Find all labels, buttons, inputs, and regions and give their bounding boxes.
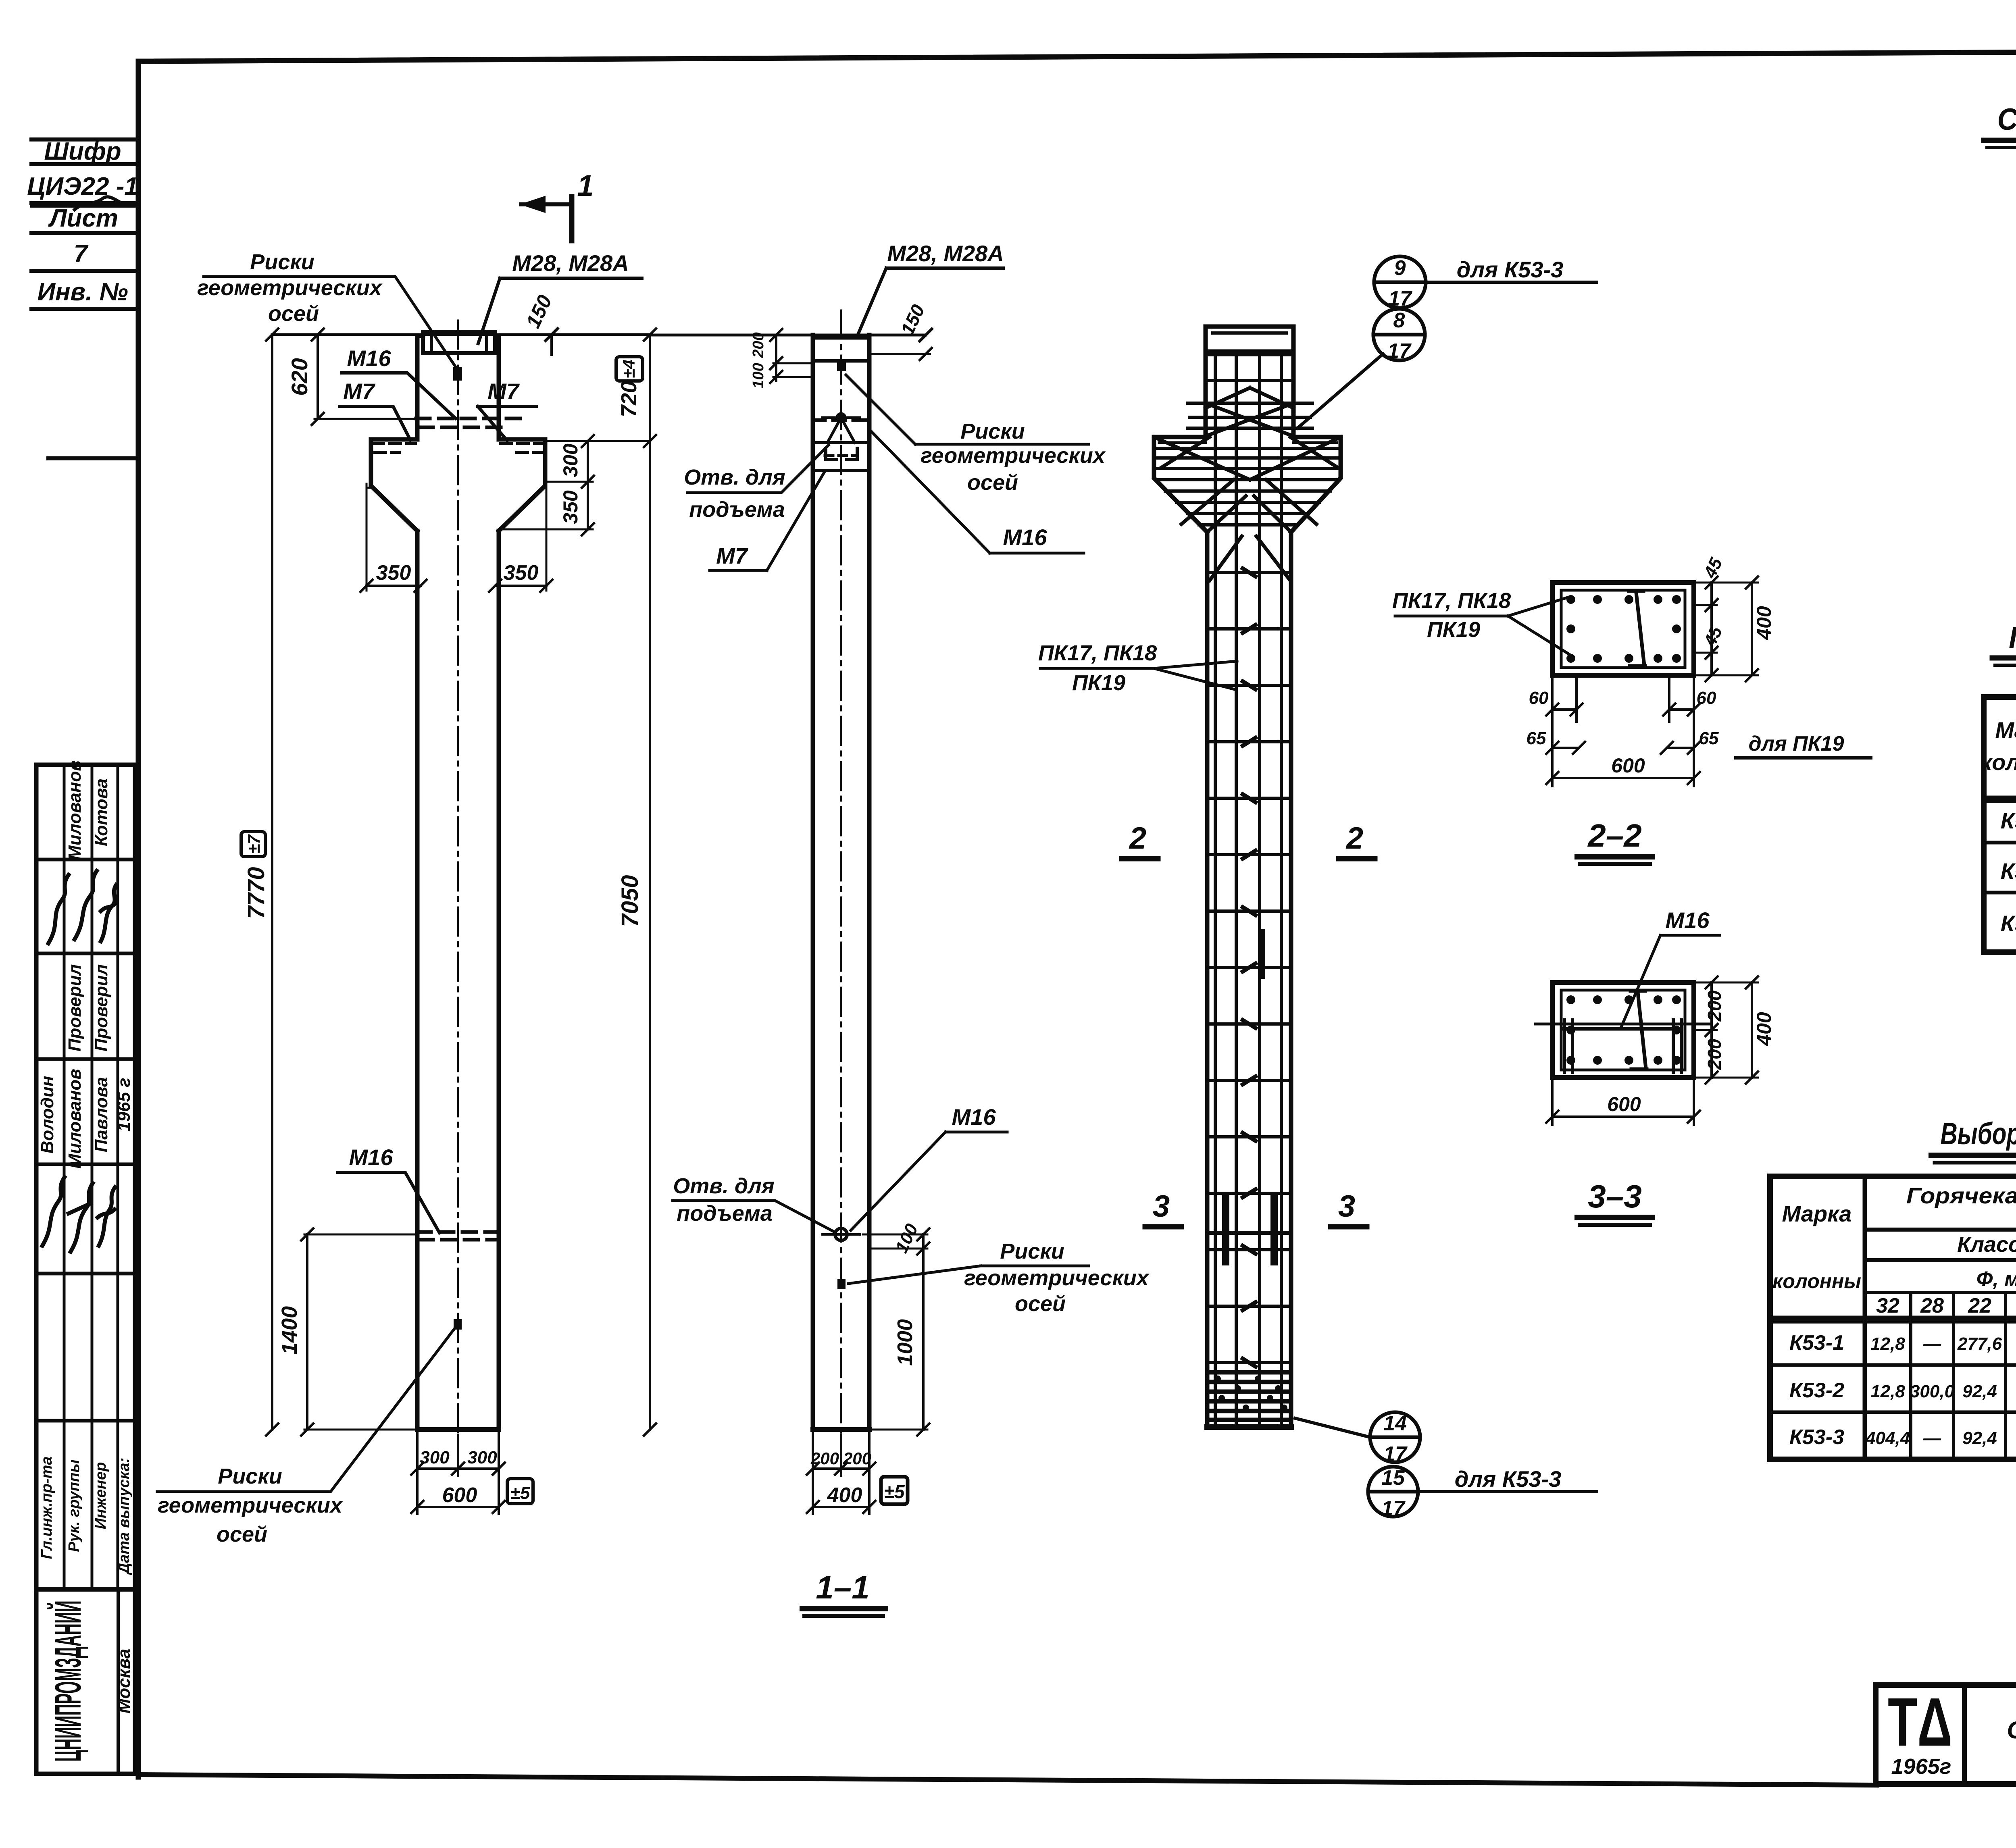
svg-text:К53-2: К53-2 (1789, 1379, 1844, 1402)
table 3: steel breakdown (1770, 1176, 2016, 1459)
dimensions 350 350 (below consoles) (360, 484, 552, 592)
svg-text:Опалубочный и арматурный че: Опалубочный и арматурный чертежи. (2007, 1717, 2016, 1744)
cage arm bars (1156, 448, 1339, 525)
svg-text:17: 17 (1388, 287, 1412, 310)
cage stirrups head (1187, 355, 1312, 428)
svg-text:М16: М16 (1003, 524, 1048, 550)
svg-text:14: 14 (1383, 1412, 1407, 1435)
svg-text:Рук. группы: Рук. группы (66, 1459, 83, 1552)
svg-text:М7: М7 (487, 379, 520, 404)
cage shaft edges (1207, 532, 1291, 1427)
svg-text:Павлова: Павлова (92, 1077, 111, 1153)
svg-text:Володин: Володин (37, 1076, 57, 1154)
view2 lifting hole mark (triangle) (823, 414, 860, 460)
dimension 620 (312, 329, 417, 425)
2-2 bottom dimensions 60 65 600 (1546, 678, 1700, 786)
svg-text:Риски: Риски (218, 1464, 282, 1488)
svg-text:осей: осей (268, 302, 319, 326)
cage longitudinal bars (1215, 352, 1281, 1425)
dimension 720 and 7050 line (548, 329, 656, 1436)
left edge stamp: code table (31, 139, 138, 458)
title block (1876, 1685, 2016, 1784)
svg-text:подъема: подъема (677, 1201, 773, 1226)
view2 centerline (840, 310, 842, 1435)
svg-text:Москва: Москва (114, 1649, 134, 1714)
svg-text:400: 400 (1753, 1012, 1775, 1046)
svg-text:геометрических: геометрических (921, 443, 1106, 468)
svg-text:Отв. для: Отв. для (684, 465, 785, 489)
view1 M16 anchor dashes (head) (416, 418, 520, 427)
view 1: column elevation (wide face) (371, 332, 545, 1430)
svg-text:7050: 7050 (617, 875, 643, 927)
cage shaft stirrups (1207, 572, 1291, 1363)
cage splice zone (dark bars) (1207, 932, 1291, 1262)
svg-text:ЦИЭ22 -1: ЦИЭ22 -1 (27, 173, 138, 200)
svg-text:620: 620 (287, 358, 312, 395)
label Отв. для подъема (top) (684, 465, 785, 522)
svg-text:1–1: 1–1 (816, 1569, 869, 1605)
svg-text:350: 350 (559, 490, 582, 524)
svg-text:Показатели на одну колонну: Показатели на одну колонну (2009, 621, 2016, 655)
svg-text:65: 65 (1527, 728, 1546, 748)
svg-text:Отв. для: Отв. для (673, 1174, 774, 1198)
3-3 bottom dimension 600 (1546, 1080, 1700, 1125)
svg-text:ПК19: ПК19 (1072, 671, 1125, 695)
view2 axis square bottom (837, 1279, 846, 1289)
svg-text:200: 200 (810, 1449, 839, 1468)
svg-text:300: 300 (420, 1448, 450, 1467)
svg-text:600: 600 (442, 1484, 477, 1507)
svg-text:—: — (1923, 1334, 1941, 1354)
svg-text:ПК17, ПК18: ПК17, ПК18 (1038, 641, 1157, 665)
svg-text:350: 350 (376, 561, 411, 585)
svg-text:Риски: Риски (960, 419, 1025, 443)
svg-text:32: 32 (1876, 1294, 1899, 1317)
svg-text:1400: 1400 (277, 1306, 302, 1355)
svg-text:Спецификация марок арматурны: Спецификация марок арматурных (1997, 102, 2016, 137)
svg-text:Риски: Риски (250, 250, 314, 274)
svg-text:1965г: 1965г (1891, 1754, 1951, 1779)
table 2: indicators (1984, 697, 2016, 952)
svg-text:К53-2: К53-2 (2001, 858, 2016, 884)
label ПК17 ПК18 ПК19 (cage) (1038, 641, 1157, 695)
svg-text:колонны: колонны (1981, 749, 2016, 775)
cage bottom dense stirrups (1207, 1372, 1291, 1420)
svg-text:15: 15 (1381, 1466, 1405, 1490)
svg-text:геометрических: геометрических (964, 1266, 1150, 1290)
svg-text:К53-3: К53-3 (1789, 1426, 1844, 1449)
dimension 150 (view2 cap right) (872, 348, 932, 360)
bottom dimensions 200 200 400 view2 (807, 1432, 875, 1514)
svg-text:28: 28 (1920, 1294, 1944, 1317)
view2 M16 dashes top (813, 418, 869, 422)
svg-text:Шифр: Шифр (44, 137, 121, 165)
label ПК17 ПК18 ПК19 (section 2-2) (1392, 589, 1511, 642)
cage arm diagonals (1154, 437, 1341, 581)
2-2 rebar dots (1566, 595, 1681, 663)
dimension 7770 (266, 329, 417, 1436)
view 3: reinforcement cage elevation (1154, 327, 1341, 1427)
view1 axis mark square (bottom) (454, 1319, 462, 1330)
dimensions 300 350 (right of consoles) (502, 435, 594, 535)
svg-text:65: 65 (1699, 728, 1719, 748)
svg-text:1: 1 (577, 169, 594, 202)
svg-text:300: 300 (559, 443, 582, 477)
svg-text:Инв. №: Инв. № (37, 278, 128, 306)
svg-text:100: 100 (750, 363, 767, 388)
svg-text:ПК17, ПК18: ПК17, ПК18 (1392, 589, 1511, 613)
hole lines (813, 443, 869, 470)
leader circles 9/17 8/17 (top) (1297, 256, 1597, 428)
svg-text:К53-3: К53-3 (2001, 911, 2016, 936)
svg-text:М28, М28А: М28, М28А (512, 250, 629, 276)
svg-text:±5: ±5 (884, 1481, 905, 1502)
svg-text:Риски: Риски (1000, 1239, 1064, 1263)
svg-text:Горячекатаная арматурная ст: Горячекатаная арматурная сталь (1906, 1183, 2016, 1208)
view1 M16 dashes (bottom) (417, 1232, 499, 1240)
svg-text:М16: М16 (1666, 907, 1710, 933)
svg-text:для ПК19: для ПК19 (1749, 732, 1844, 755)
left edge stamp: institute block (47, 1600, 89, 1762)
cage arms outline (1154, 437, 1207, 532)
label Риски геометрических осей (view2 top) (921, 419, 1106, 495)
svg-text:подъема: подъема (689, 497, 785, 522)
svg-text:для К53-3: для К53-3 (1457, 257, 1564, 282)
label Отв. для подъема (bottom) (673, 1174, 774, 1226)
svg-text:ПК19: ПК19 (1427, 618, 1480, 642)
view2 lower hole circle (823, 1228, 860, 1240)
svg-text:Выборка стали на одну колон: Выборка стали на одну колонну, кг (1941, 1117, 2016, 1151)
view1 axis mark square (top) (453, 367, 462, 381)
dimensions 200 100 (view2 top left) (770, 329, 813, 383)
svg-text:геометрических: геометрических (158, 1493, 343, 1517)
dimension 1400 (bottom left) (301, 1228, 417, 1436)
console steps (371, 439, 417, 531)
view1 M7 dashes at consoles (373, 443, 543, 452)
view2 top dimension line (650, 329, 932, 341)
shaft edges (813, 335, 869, 1430)
3-3 M16 tube through middle (1535, 991, 1710, 1072)
svg-text:колонны: колонны (1772, 1270, 1861, 1292)
svg-text:2: 2 (1129, 821, 1146, 855)
svg-text:60: 60 (1697, 688, 1716, 708)
svg-text:400: 400 (1753, 606, 1775, 640)
svg-text:12,8: 12,8 (1870, 1382, 1905, 1401)
svg-text:60: 60 (1529, 688, 1549, 708)
svg-text:осей: осей (217, 1522, 267, 1546)
cap (813, 335, 869, 340)
cage head cross bracing (1206, 388, 1293, 436)
svg-text:Гл.инж.пр-та: Гл.инж.пр-та (38, 1457, 55, 1559)
svg-text:К53-1: К53-1 (2001, 808, 2016, 833)
2-2 bent tie (1629, 591, 1645, 666)
svg-text:17: 17 (1383, 1442, 1408, 1466)
cross-section 3-3 (1552, 982, 1694, 1078)
svg-text:3–3: 3–3 (1588, 1178, 1641, 1214)
svg-text:Класс А-Ш: Класс А-Ш (1957, 1232, 2016, 1257)
svg-text:Инженер: Инженер (92, 1462, 109, 1530)
svg-text:600: 600 (1611, 754, 1645, 777)
svg-text:осей: осей (967, 470, 1018, 495)
signature squiggles (42, 871, 116, 1252)
svg-text:Милованов: Милованов (65, 760, 85, 860)
svg-text:12,8: 12,8 (1870, 1334, 1905, 1354)
svg-text:К53-1: К53-1 (1789, 1331, 1844, 1355)
svg-text:Проверил: Проверил (92, 964, 111, 1051)
svg-text:200: 200 (843, 1449, 871, 1468)
svg-text:Марка: Марка (1782, 1201, 1852, 1226)
head outline (417, 334, 499, 338)
label Риски геометрических осей (view2 bottom) (964, 1239, 1150, 1316)
TD logo (1888, 1684, 1952, 1779)
svg-text:ЦНИИПРОМЗДАНИЙ: ЦНИИПРОМЗДАНИЙ (47, 1600, 89, 1762)
svg-text:Марка: Марка (1995, 717, 2016, 743)
svg-text:7770: 7770 (243, 867, 269, 919)
svg-text:Котова: Котова (92, 778, 111, 846)
cage stirrup hooks (1243, 568, 1256, 1367)
svg-text:200: 200 (1704, 1038, 1725, 1070)
svg-text:200: 200 (750, 332, 767, 358)
cross-section 2-2 (1552, 583, 1694, 675)
cage outline top cap (1206, 327, 1293, 352)
svg-text:9: 9 (1394, 256, 1406, 280)
svg-text:±7: ±7 (244, 834, 263, 853)
svg-text:200: 200 (1704, 990, 1725, 1022)
3-3 right dimensions 200 200 400 (1697, 976, 1758, 1084)
svg-text:Милованов: Милованов (65, 1069, 85, 1169)
svg-text:Лист: Лист (48, 204, 118, 232)
svg-text:М7: М7 (716, 543, 749, 568)
title block text (2007, 1692, 2016, 1775)
svg-text:Дата выпуска:: Дата выпуска: (116, 1458, 133, 1575)
svg-text:3: 3 (1338, 1189, 1355, 1224)
left edge stamp: signature table (36, 765, 135, 1774)
svg-text:2–2: 2–2 (1587, 818, 1641, 853)
leader circles 14/17 15/17 (bottom) (1295, 1412, 1597, 1517)
view 2: column elevation (narrow face) (813, 335, 869, 1430)
svg-text:92,4: 92,4 (1962, 1428, 1997, 1448)
svg-text:404,4: 404,4 (1865, 1428, 1910, 1448)
svg-text:2: 2 (1345, 821, 1363, 855)
svg-text:для К53-3: для К53-3 (1455, 1466, 1562, 1492)
svg-text:±5: ±5 (510, 1483, 530, 1503)
svg-text:М28, М28А: М28, М28А (887, 241, 1004, 266)
svg-text:геометрических: геометрических (197, 276, 383, 300)
svg-text:ТΔ: ТΔ (1888, 1684, 1952, 1761)
svg-text:Ф, мм: Ф, мм (1976, 1267, 2016, 1291)
label Риски (bottom view1) (158, 1464, 343, 1546)
view2 axis square below cap (837, 362, 846, 371)
label Риски геометрических осей (top) (197, 250, 383, 326)
2-2 right dimensions 45 400 45 (1697, 576, 1758, 681)
svg-text:1000: 1000 (893, 1319, 917, 1366)
svg-text:720: 720 (617, 381, 641, 417)
svg-text:400: 400 (827, 1484, 862, 1507)
top dimension line view1 (272, 329, 650, 355)
svg-text:3: 3 (1153, 1189, 1170, 1224)
svg-text:8: 8 (1393, 309, 1405, 332)
bottom dimensions 300 300 600 view1 (411, 1432, 505, 1514)
svg-text:—: — (1923, 1428, 1941, 1448)
svg-text:±4: ±4 (619, 360, 638, 378)
3-3 rebar dots (1566, 995, 1681, 1065)
svg-text:Проверил: Проверил (65, 964, 85, 1051)
svg-text:277,6: 277,6 (1957, 1334, 2002, 1354)
cage head edges (1206, 352, 1293, 437)
svg-text:М16: М16 (347, 345, 392, 371)
svg-text:М7: М7 (343, 379, 376, 404)
svg-text:М16: М16 (952, 1104, 996, 1130)
section mark 1 (top) (521, 196, 572, 241)
view1 centerline (457, 320, 459, 1435)
shaft (417, 531, 499, 1430)
svg-text:22: 22 (1968, 1294, 1991, 1317)
svg-text:М16: М16 (349, 1145, 394, 1170)
svg-text:92,4: 92,4 (1962, 1382, 1997, 1401)
svg-text:1965 г: 1965 г (114, 1078, 134, 1132)
svg-text:17: 17 (1381, 1497, 1406, 1520)
svg-text:300,0: 300,0 (1910, 1382, 1955, 1401)
svg-text:300: 300 (467, 1448, 497, 1467)
dimensions 100 1000 (view2 bottom right) (863, 1228, 929, 1436)
svg-text:осей: осей (1015, 1292, 1066, 1316)
svg-text:7: 7 (74, 240, 89, 268)
head cap M28 insert (423, 332, 495, 353)
svg-text:350: 350 (504, 561, 539, 585)
svg-text:17: 17 (1387, 339, 1412, 363)
svg-text:600: 600 (1607, 1093, 1641, 1115)
